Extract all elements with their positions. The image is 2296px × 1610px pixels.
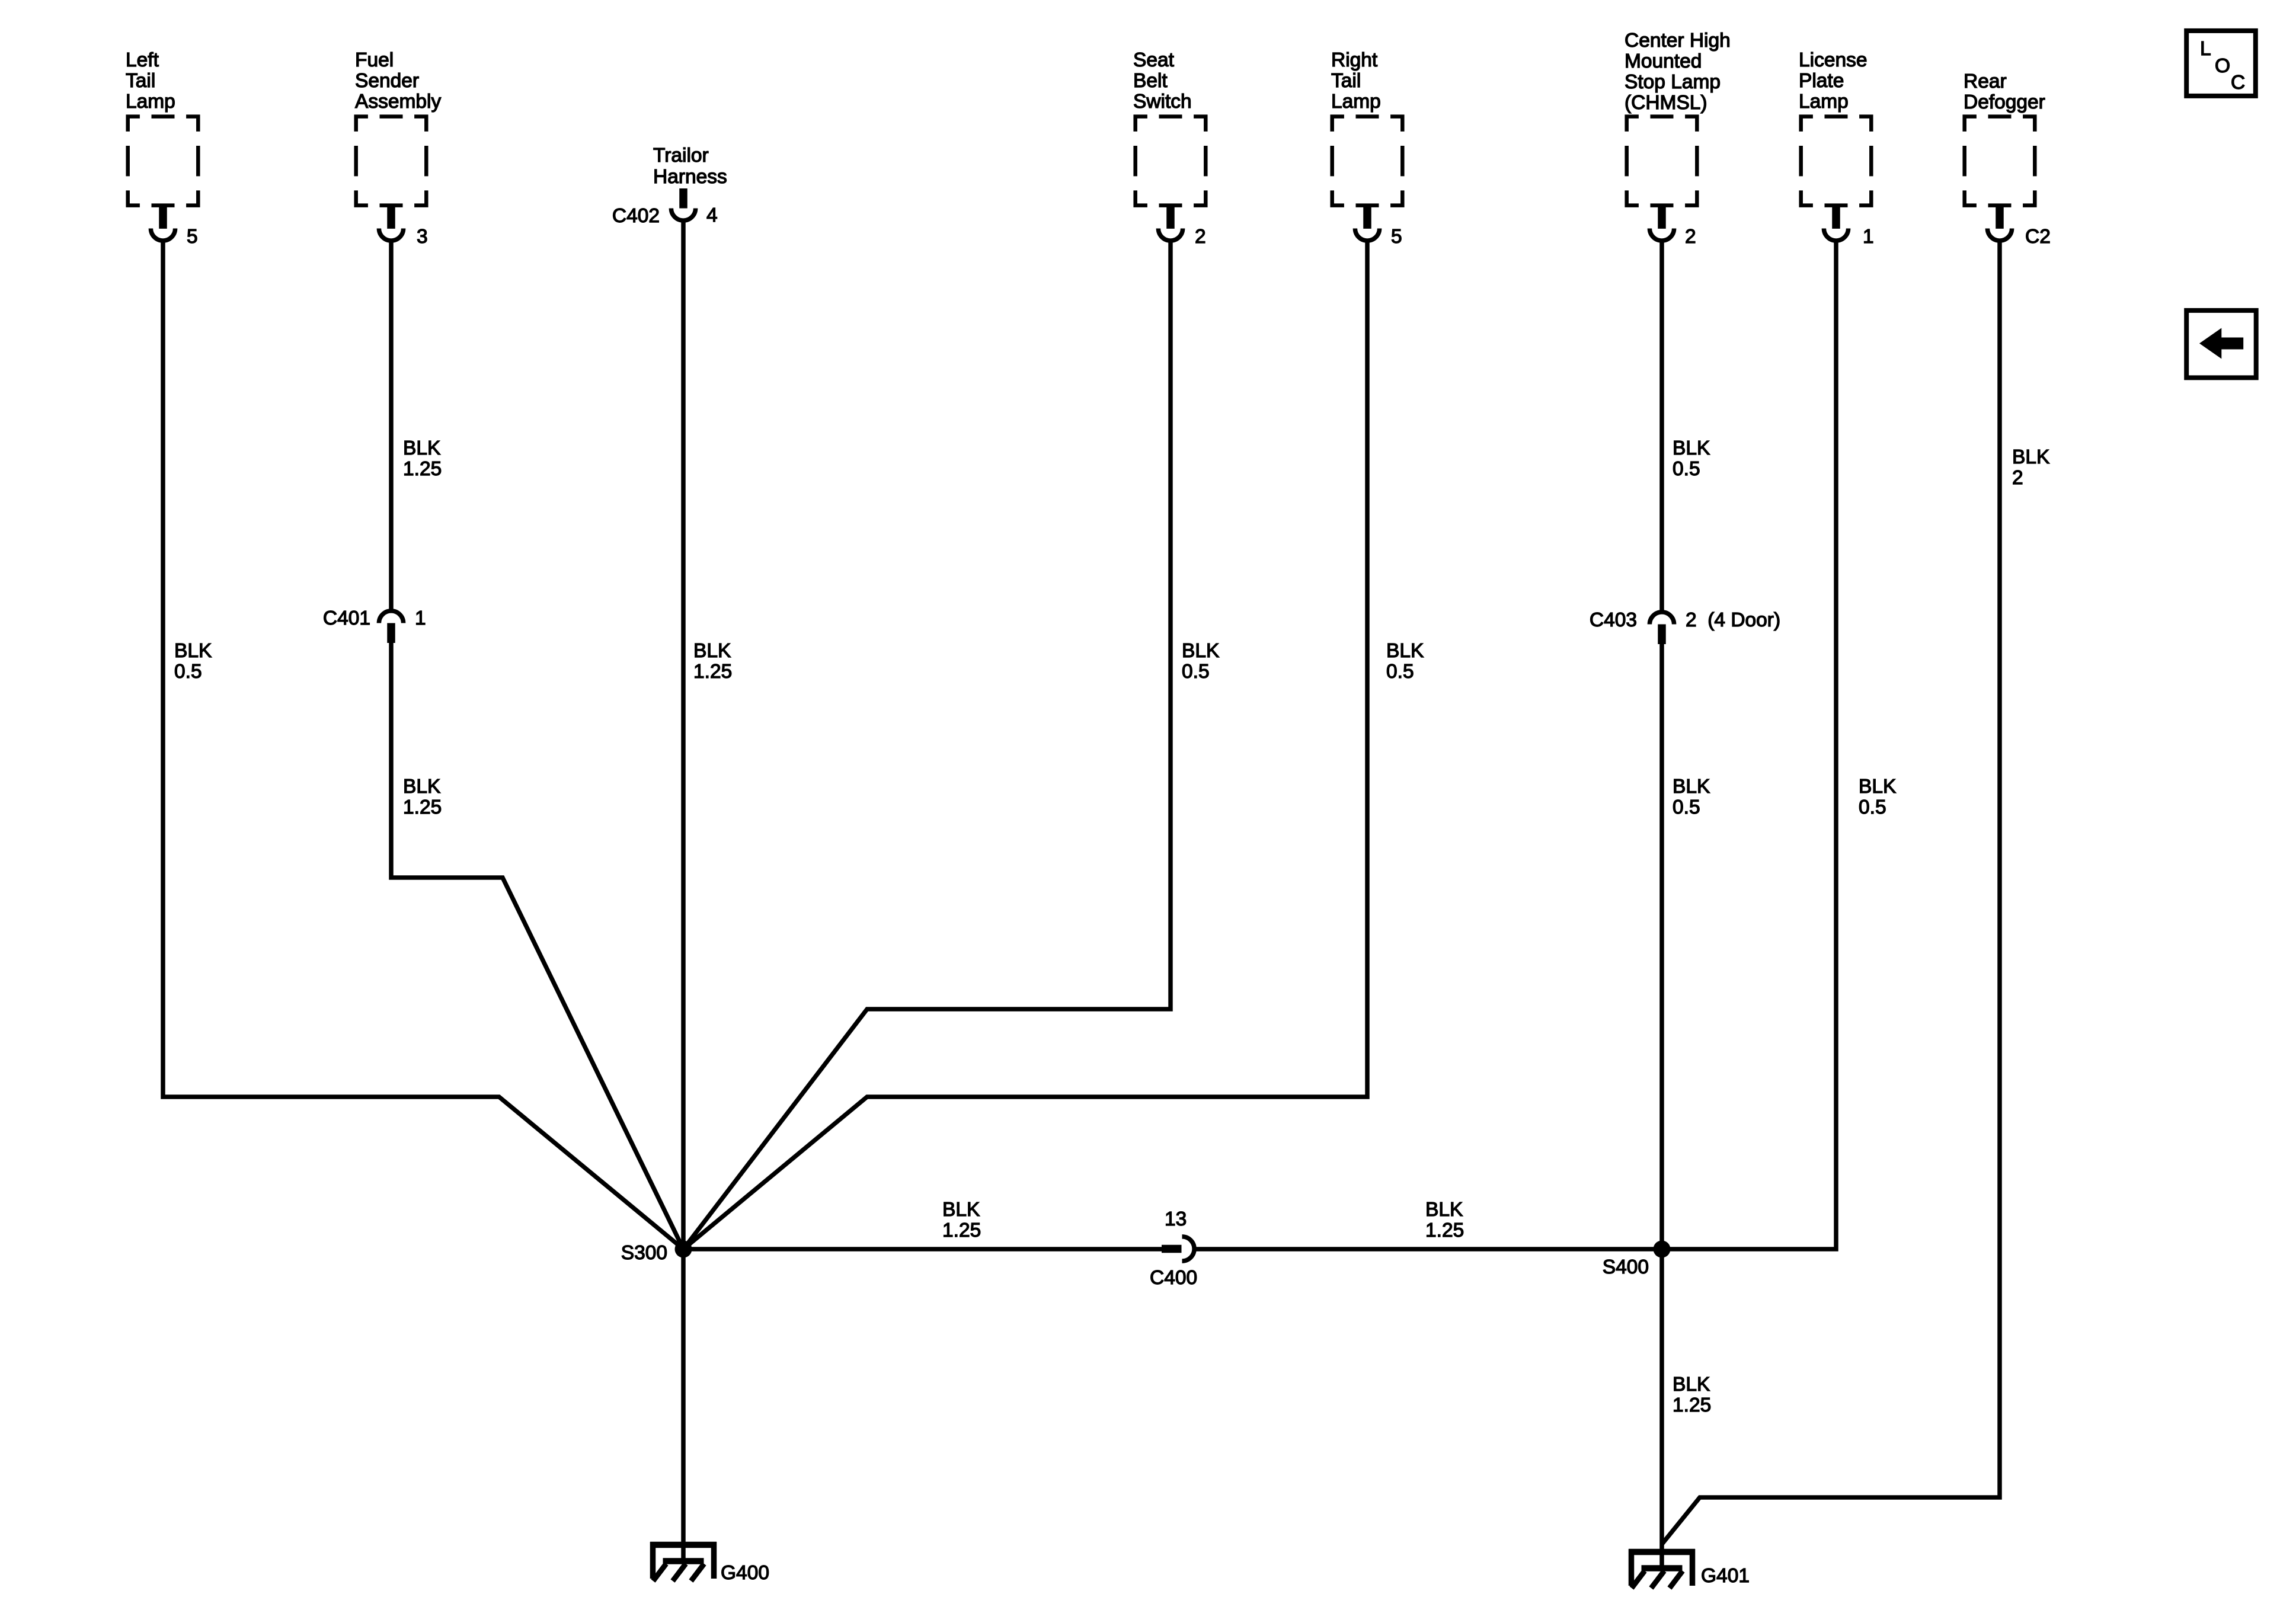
svg-text:C2: C2 (2025, 226, 2051, 248)
svg-text:Lamp: Lamp (126, 91, 175, 113)
svg-text:1.25: 1.25 (403, 796, 442, 818)
svg-text:License: License (1799, 49, 1867, 71)
svg-text:C401: C401 (323, 607, 370, 629)
svg-text:BLK: BLK (1859, 776, 1896, 798)
svg-text:C: C (2231, 72, 2245, 94)
svg-text:Tail: Tail (126, 70, 155, 92)
svg-text:C403: C403 (1590, 609, 1637, 631)
svg-text:1.25: 1.25 (693, 661, 732, 683)
svg-text:Sender: Sender (355, 70, 419, 92)
svg-text:5: 5 (1391, 226, 1402, 248)
svg-text:Switch: Switch (1133, 91, 1192, 113)
svg-text:S300: S300 (621, 1242, 667, 1264)
svg-text:BLK: BLK (1673, 776, 1710, 798)
svg-text:BLK: BLK (1182, 640, 1219, 662)
svg-text:1.25: 1.25 (942, 1219, 981, 1241)
svg-text:Plate: Plate (1799, 70, 1844, 92)
svg-text:BLK: BLK (1386, 640, 1424, 662)
svg-text:5: 5 (187, 226, 198, 248)
svg-text:4: 4 (706, 204, 718, 226)
svg-text:Stop Lamp: Stop Lamp (1625, 71, 1721, 93)
svg-text:BLK: BLK (174, 640, 212, 662)
svg-text:0.5: 0.5 (1386, 661, 1414, 683)
svg-text:2: 2 (1195, 226, 1206, 248)
svg-text:Rear: Rear (1964, 71, 2007, 92)
svg-text:Lamp: Lamp (1799, 91, 1849, 113)
svg-text:O: O (2215, 55, 2230, 77)
svg-text:Center High: Center High (1625, 30, 1731, 52)
svg-text:0.5: 0.5 (1182, 661, 1210, 683)
svg-text:BLK: BLK (1673, 437, 1710, 459)
svg-text:C402: C402 (612, 205, 660, 227)
svg-text:0.5: 0.5 (1859, 796, 1886, 818)
svg-text:G400: G400 (721, 1562, 769, 1584)
svg-text:Tail: Tail (1331, 70, 1361, 92)
svg-text:Belt: Belt (1133, 70, 1168, 92)
svg-text:1.25: 1.25 (403, 458, 442, 480)
svg-text:Left: Left (126, 49, 159, 71)
svg-text:2 (4 Door): 2 (4 Door) (1686, 609, 1780, 631)
svg-text:C400: C400 (1150, 1267, 1197, 1289)
svg-text:G401: G401 (1701, 1565, 1750, 1587)
svg-text:0.5: 0.5 (1673, 458, 1700, 480)
svg-text:BLK: BLK (942, 1199, 980, 1221)
svg-text:2: 2 (1685, 226, 1696, 248)
svg-text:Harness: Harness (653, 166, 727, 188)
svg-text:0.5: 0.5 (174, 661, 202, 683)
svg-text:BLK: BLK (2012, 446, 2049, 468)
svg-text:Fuel: Fuel (355, 49, 394, 71)
svg-text:(CHMSL): (CHMSL) (1625, 92, 1707, 114)
svg-text:BLK: BLK (403, 776, 440, 798)
svg-text:Mounted: Mounted (1625, 50, 1702, 72)
svg-text:1: 1 (1863, 226, 1874, 248)
svg-text:BLK: BLK (403, 437, 440, 459)
svg-text:Defogger: Defogger (1964, 91, 2045, 113)
svg-text:1.25: 1.25 (1673, 1394, 1711, 1416)
svg-text:0.5: 0.5 (1673, 796, 1700, 818)
svg-text:Lamp: Lamp (1331, 91, 1381, 113)
svg-text:Trailor: Trailor (653, 145, 709, 167)
svg-text:BLK: BLK (1673, 1374, 1710, 1395)
svg-text:3: 3 (417, 226, 428, 248)
svg-text:Seat: Seat (1133, 49, 1175, 71)
svg-text:L: L (2200, 38, 2211, 60)
svg-text:S400: S400 (1603, 1256, 1649, 1278)
svg-text:13: 13 (1165, 1208, 1187, 1230)
svg-text:Assembly: Assembly (355, 91, 441, 113)
svg-text:1: 1 (415, 607, 426, 629)
svg-text:1.25: 1.25 (1425, 1219, 1464, 1241)
svg-text:2: 2 (2012, 467, 2023, 489)
svg-text:Right: Right (1331, 49, 1378, 71)
svg-text:BLK: BLK (1425, 1199, 1463, 1221)
svg-text:BLK: BLK (693, 640, 731, 662)
